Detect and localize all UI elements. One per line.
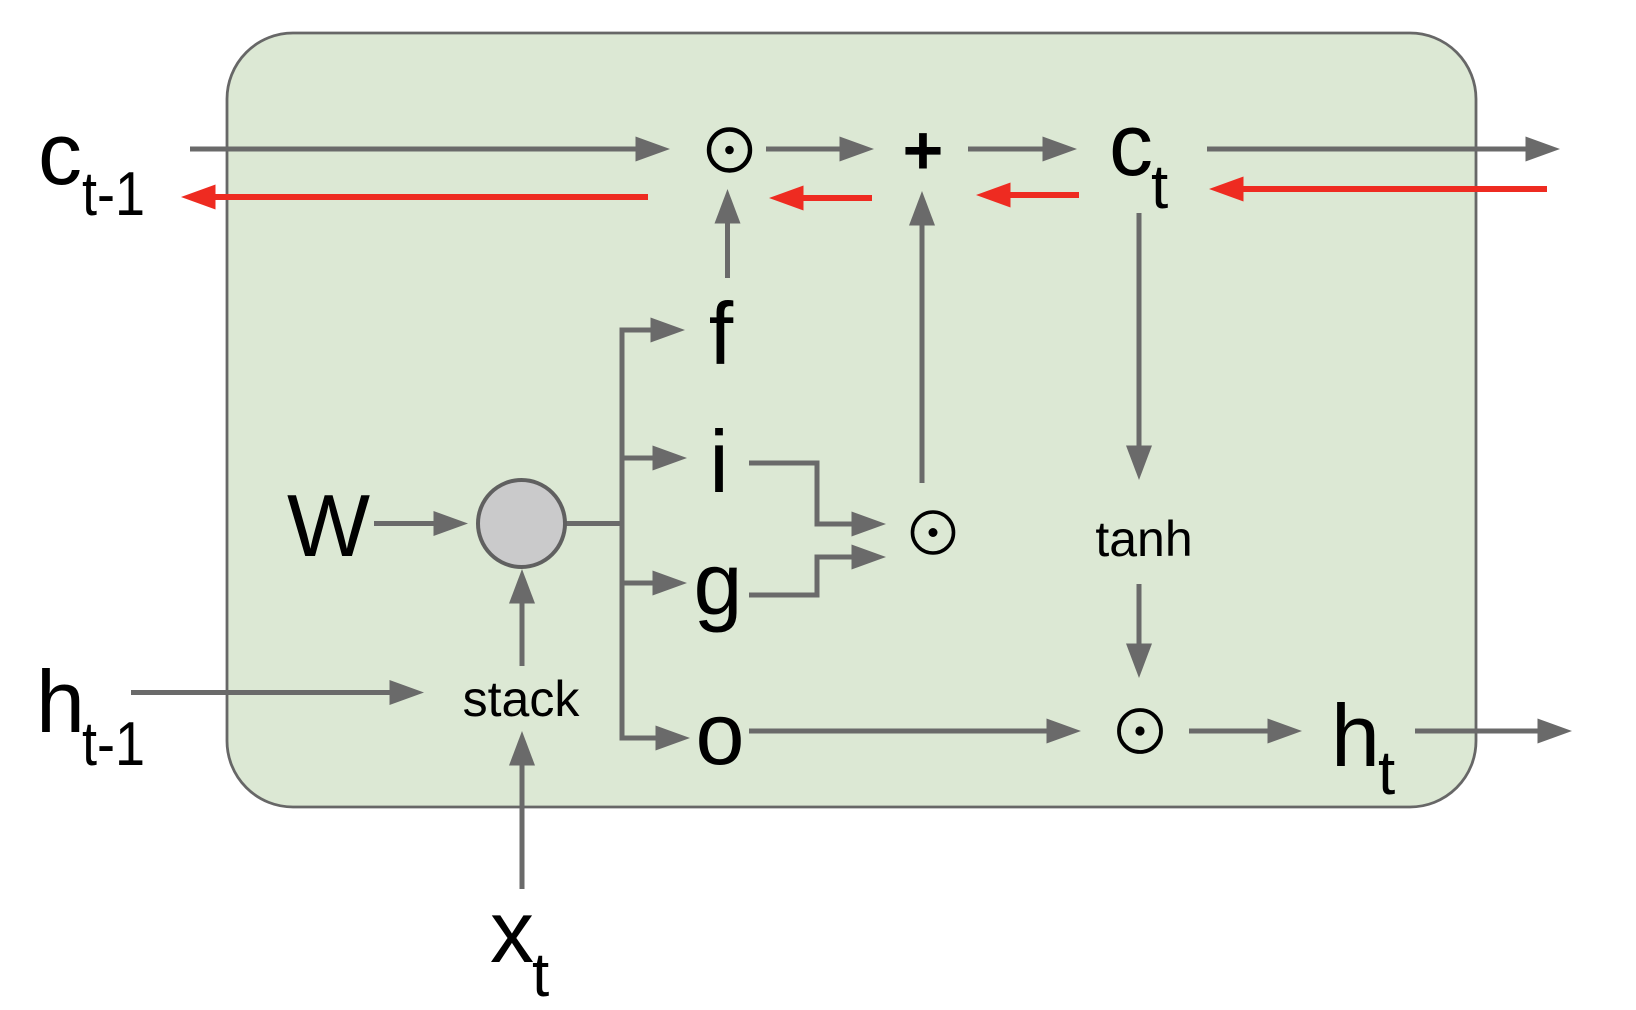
svg-text:t: t	[1378, 739, 1395, 808]
i-g elementwise multiply node	[913, 512, 954, 553]
branch wire to i	[622, 446, 687, 471]
svg-text:f: f	[709, 284, 734, 383]
wire i to i-g multiply (elbow)	[749, 463, 886, 537]
output elementwise multiply node	[1119, 710, 1161, 752]
svg-text:g: g	[694, 534, 743, 633]
stack node (gray circle)	[478, 480, 565, 567]
red gradient arrow leaving cell to c_t-1	[181, 185, 648, 210]
red gradient arrow entering cell toward c_t	[1209, 177, 1547, 202]
wire h_t out of cell	[1415, 719, 1572, 744]
wire c_t out of cell	[1207, 137, 1560, 162]
wire stack circle to trunk	[564, 521, 625, 526]
svg-text:t: t	[1151, 153, 1168, 222]
wire tanh down to output multiply	[1126, 584, 1152, 678]
svg-text:stack: stack	[463, 671, 581, 727]
wire g to i-g multiply (elbow)	[749, 545, 886, 596]
wire output multiply to h_t	[1189, 719, 1302, 744]
red gradient arrow plus to multiply	[769, 186, 872, 211]
wire x_t up to stack	[509, 731, 535, 889]
label h_t-1	[36, 652, 145, 779]
wire c_t down to tanh	[1126, 213, 1152, 480]
svg-text:+: +	[903, 111, 944, 189]
LSTM cell body (green rounded box)	[227, 33, 1476, 807]
svg-text:t-1: t-1	[82, 710, 145, 779]
svg-text:h: h	[1331, 686, 1380, 785]
wire i-g multiply up to plus	[909, 191, 935, 483]
wire plus to c_t	[968, 137, 1077, 162]
elementwise multiply node (forget gate)	[709, 130, 750, 171]
wire o to output multiply	[749, 719, 1081, 744]
svg-text:t-1: t-1	[82, 160, 145, 229]
svg-text:x: x	[490, 882, 534, 981]
svg-text:h: h	[36, 652, 85, 751]
label c_t	[1109, 95, 1168, 222]
wire stack label up to circle	[509, 569, 535, 666]
wire h_t-1 into cell toward stack	[131, 680, 424, 705]
branch wire to f	[620, 318, 686, 343]
svg-text:t: t	[532, 941, 549, 1010]
red gradient arrow c_t to plus	[976, 183, 1079, 208]
gate fan-out trunk wire	[620, 330, 625, 738]
label h_t	[1331, 686, 1395, 808]
svg-text:c: c	[38, 104, 82, 203]
svg-text:c: c	[1109, 95, 1153, 194]
svg-text:i: i	[709, 412, 729, 511]
svg-text:tanh: tanh	[1095, 511, 1192, 567]
wire multiply to plus	[766, 137, 874, 162]
branch wire to g	[622, 571, 687, 596]
wire f gate up to multiply	[715, 189, 741, 278]
branch wire to o	[620, 726, 691, 751]
svg-text:o: o	[696, 684, 745, 783]
label x_t	[490, 882, 549, 1010]
label c_t-1	[38, 104, 145, 229]
wire W to stack circle	[374, 511, 468, 536]
svg-text:W: W	[287, 476, 370, 575]
wire c_t-1 forward into cell	[190, 137, 670, 162]
